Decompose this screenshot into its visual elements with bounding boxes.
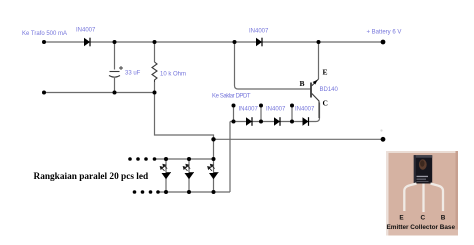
transistor body [414, 155, 432, 183]
wire chain stub 2 [260, 106, 262, 122]
ellipsis dots bottom rail [133, 190, 137, 194]
diode D2 IN4007 top middle [256, 38, 262, 47]
svg-text:C: C [420, 215, 425, 222]
wire LED bottom rail [158, 191, 230, 193]
wire bottom rail to diode chain [229, 122, 231, 193]
svg-text:C: C [323, 99, 328, 108]
diode D4 IN4007 chain [274, 117, 280, 126]
node LED col1 bottom [164, 190, 168, 194]
wire feedback to base [235, 42, 312, 89]
LED L1 [160, 164, 171, 179]
node chain stub 3 top [290, 104, 294, 108]
wire chain stub 3 [291, 106, 293, 122]
ellipsis dots top rail [128, 157, 132, 161]
svg-text:Emitter Collector Base: Emitter Collector Base [387, 224, 456, 231]
svg-text:B: B [441, 215, 446, 222]
photo background [386, 151, 458, 236]
svg-text:BD140: BD140 [320, 87, 339, 93]
node feedback top [233, 40, 237, 44]
capacitor plus sign [119, 66, 123, 70]
diode D3 IN4007 chain [246, 117, 252, 126]
wire capacitor branch bottom [114, 78, 116, 93]
svg-text:E: E [323, 68, 328, 77]
wire LED column 3 [213, 159, 215, 192]
svg-text:33 uF: 33 uF [125, 71, 141, 77]
diode D5 IN4007 chain [303, 117, 309, 126]
wire LED column 1 [165, 159, 167, 192]
svg-text:10 k Ohm: 10 k Ohm [160, 72, 186, 78]
wire lower bus [44, 92, 155, 94]
wire resistor branch bottom [154, 82, 156, 93]
svg-text:Rangkaian paralel 20 pcs led: Rangkaian paralel 20 pcs led [34, 172, 150, 182]
node lower bus left [42, 91, 46, 95]
stray mark near battery minus [380, 129, 382, 131]
svg-text:IN4007: IN4007 [266, 107, 286, 113]
node resistor bottom [153, 91, 157, 95]
node resistor top [153, 40, 157, 44]
wire return line to battery minus [214, 138, 384, 140]
node battery plus [381, 40, 386, 45]
svg-text:IN4007: IN4007 [76, 28, 96, 34]
wire emitter from top bus [318, 42, 320, 79]
wire top bus [44, 41, 383, 43]
node terminal trafo [42, 40, 46, 44]
LED L3 [208, 164, 219, 179]
junction dots top bus [42, 40, 385, 194]
wire LED column 2 [188, 159, 190, 192]
node LED col3 top [212, 157, 216, 161]
node LED rail junction [211, 137, 215, 141]
node chain stub 1 bottom [232, 120, 236, 124]
node cap bottom [113, 91, 117, 95]
node cap top [113, 40, 117, 44]
node LED col2 bottom [187, 190, 191, 194]
node LED col1 top [164, 157, 168, 161]
resistor R1 10k zigzag [152, 62, 157, 82]
svg-text:E: E [399, 215, 404, 222]
capacitor C1 33uF plates [109, 72, 120, 78]
mounting hole [419, 159, 427, 169]
svg-text:Ke Saklar DPDT: Ke Saklar DPDT [212, 94, 251, 100]
wire node to LED top rail [213, 139, 215, 159]
leg B [431, 184, 444, 212]
node emitter top [317, 40, 321, 44]
leg E [404, 184, 416, 212]
LED L2 [183, 164, 194, 179]
wire chain stub 1 [233, 106, 235, 122]
node battery minus [381, 137, 386, 142]
node LED col2 top [187, 157, 191, 161]
node chain stub 2 bottom [259, 120, 263, 124]
svg-text:B: B [300, 79, 305, 88]
wire capacitor branch top [114, 42, 116, 70]
wire step from lower bus to LED rail node [155, 93, 214, 140]
node chain stub 2 top [259, 104, 263, 108]
wire LED top rail [155, 158, 214, 160]
svg-text:IN4007: IN4007 [295, 107, 315, 113]
node chain stub 3 bottom [290, 120, 294, 124]
svg-text:IN4007: IN4007 [239, 107, 259, 113]
node chain stub 1 top [232, 104, 236, 108]
wire diode chain [230, 103, 320, 122]
svg-text:+ Battery 6 V: + Battery 6 V [367, 30, 402, 36]
svg-text:IN4007: IN4007 [249, 29, 269, 35]
svg-text:Ke Trafo 500 mA: Ke Trafo 500 mA [22, 31, 67, 37]
photo transistor inset [386, 151, 458, 236]
diode D1 IN4007 top left [84, 38, 90, 47]
leg C [422, 184, 424, 213]
node LED col3 bottom [212, 190, 216, 194]
wire resistor branch top [154, 42, 156, 62]
package markings [417, 176, 429, 177]
transistor Q1 BD140 [311, 79, 319, 118]
